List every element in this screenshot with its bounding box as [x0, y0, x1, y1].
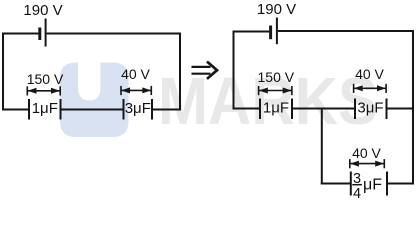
wire right rail (right circuit) — [412, 30, 414, 185]
svg-text:40 V: 40 V — [352, 145, 381, 161]
wire lower-right segment (branch) — [387, 183, 414, 185]
wire bottom-middle segment (left circuit) — [61, 109, 124, 111]
capacitor C2 3uF plates — [124, 99, 153, 120]
wire lower-left segment (branch) — [321, 183, 351, 185]
wire top-right segment (left circuit) — [47, 33, 181, 35]
wire right rail (left circuit) — [179, 33, 181, 111]
measure arrow 150 V (left circuit) — [27, 86, 60, 95]
implication arrow — [192, 62, 218, 78]
wire bottom-left segment (left circuit) — [2, 109, 29, 111]
measure arrow 40 V (branch) — [350, 159, 385, 168]
measure arrow 40 V (right circuit top) — [354, 84, 387, 93]
svg-text:3μF: 3μF — [357, 100, 383, 117]
battery V2 — [271, 18, 277, 45]
measure arrow 40 V (left circuit) — [121, 86, 151, 95]
svg-text:1μF: 1μF — [32, 100, 58, 117]
capacitor C1 1uF plates — [29, 99, 61, 120]
measure arrow 150 V (right circuit) — [259, 86, 292, 95]
svg-text:μF: μF — [363, 177, 382, 194]
wire top-right segment (right circuit) — [278, 30, 414, 32]
wire left rail (right circuit) — [233, 31, 235, 110]
svg-text:150 V: 150 V — [258, 69, 295, 85]
svg-text:3μF: 3μF — [125, 100, 151, 117]
svg-text:190 V: 190 V — [23, 2, 62, 19]
wire bottom-right segment (right circuit) — [387, 108, 415, 110]
battery V1 — [40, 19, 46, 47]
wire bottom-middle segment (right circuit) — [292, 108, 355, 110]
wire top-left segment (left circuit) — [2, 33, 39, 35]
wire left rail (left circuit) — [2, 33, 4, 111]
wire bottom-left segment (right circuit) — [233, 108, 260, 110]
svg-text:1μF: 1μF — [263, 100, 289, 117]
capacitor C3 1uF plates — [260, 99, 292, 120]
wire top-left segment (right circuit) — [233, 31, 270, 33]
svg-text:4: 4 — [353, 186, 361, 202]
svg-text:190 V: 190 V — [257, 1, 296, 18]
wire branch drop (junction to lower branch) — [321, 109, 323, 185]
wire bottom-right segment (left circuit) — [152, 109, 181, 111]
svg-text:150 V: 150 V — [27, 71, 64, 87]
label 3/4 uF — [352, 171, 382, 202]
capacitor C4 3uF plates — [355, 99, 387, 120]
capacitor C5 3/4 uF plates — [351, 172, 387, 196]
svg-text:40 V: 40 V — [121, 66, 150, 82]
svg-text:40 V: 40 V — [355, 66, 384, 82]
